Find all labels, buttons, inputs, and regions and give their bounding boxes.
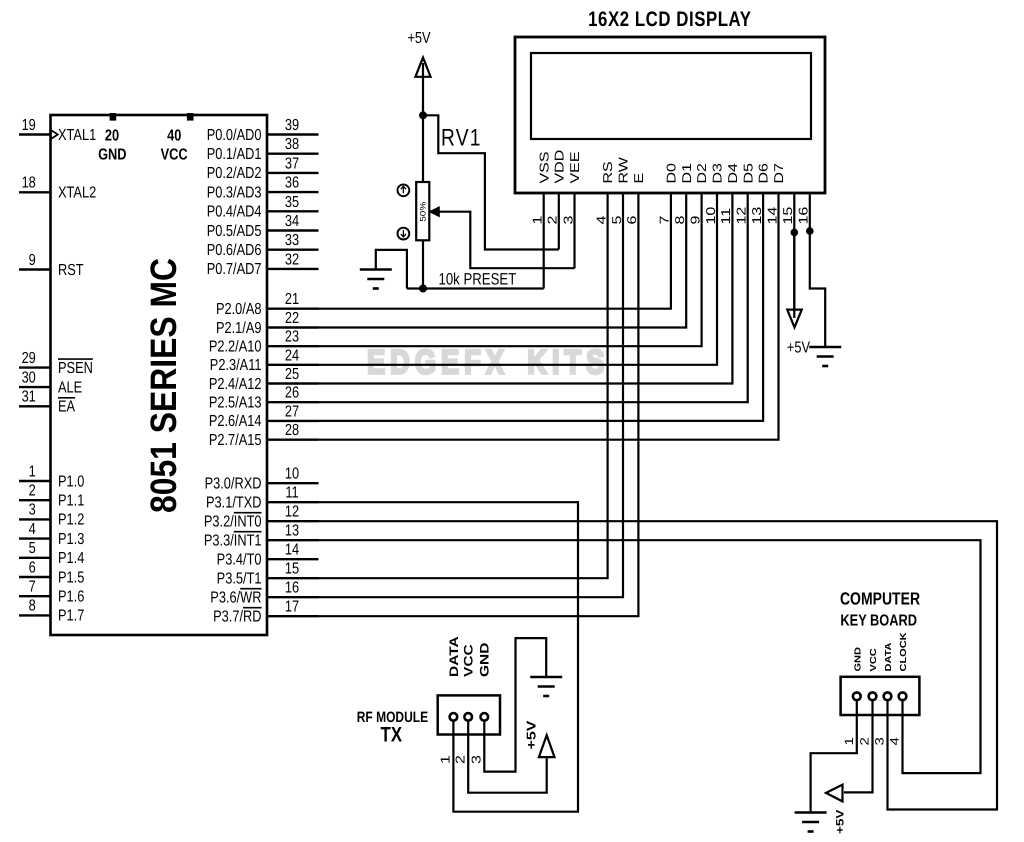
pin 29 PSEN stub (19, 366, 51, 368)
wire P2.2/A10 to LCD (319, 193, 702, 346)
pin 6 P1.5 stub (19, 576, 51, 578)
pin 28 number (285, 422, 299, 439)
pin 18 XTAL2 stub (19, 191, 51, 193)
pin 2 number (29, 483, 36, 500)
svg-text:21: 21 (285, 291, 299, 308)
keyboard GND wire to ground (811, 701, 857, 813)
pin 16 label P3.6/WR (210, 590, 261, 607)
svg-text:P2.3/A11: P2.3/A11 (210, 357, 262, 374)
pin 3 label P1.2 (58, 512, 84, 529)
svg-text:3: 3 (873, 737, 887, 745)
LCD pin 16 number (797, 207, 811, 225)
pin 28 label P2.7/A15 (209, 432, 262, 449)
LCD module outline (515, 37, 825, 193)
svg-text:7: 7 (29, 579, 36, 596)
svg-text:VDD: VDD (553, 150, 567, 184)
pin 19 number (22, 117, 36, 134)
overline PSEN (58, 358, 93, 360)
LCD pin label D6 (757, 163, 771, 184)
svg-text:39: 39 (285, 117, 299, 134)
LCD pin label VSS (538, 151, 552, 183)
LCD screen (531, 53, 811, 139)
svg-text:P1.4: P1.4 (58, 550, 84, 567)
pin 12 number (285, 504, 299, 521)
watermark EDGEFX KITS (367, 344, 609, 382)
pin 9 RST stub (19, 268, 51, 270)
keyboard pin label DATA (884, 643, 894, 672)
pin 21 label P2.0/A8 (216, 301, 262, 318)
pin 22 number (285, 310, 299, 327)
svg-text:P2.1/A9: P2.1/A9 (216, 320, 262, 337)
label +5V at RF module (525, 720, 539, 749)
svg-text:38: 38 (285, 136, 299, 153)
pin 39 P0.0/AD0 stub (267, 133, 319, 135)
overline RD (243, 607, 261, 609)
svg-text:+5V: +5V (407, 30, 430, 47)
pin 34 label P0.5/AD5 (207, 223, 262, 240)
svg-text:XTAL1: XTAL1 (58, 127, 96, 144)
svg-text:7: 7 (658, 216, 672, 225)
pin 37 number (285, 155, 299, 172)
pin 9 label RST (58, 262, 84, 279)
svg-text:25: 25 (285, 366, 299, 383)
label RV1 (441, 125, 482, 152)
RF pin label VCC (462, 644, 476, 677)
RF pin 2 number (454, 755, 468, 764)
svg-text:16: 16 (285, 580, 299, 597)
pin 2 P1.1 stub (19, 499, 51, 501)
LCD pin label D7 (773, 163, 787, 184)
pin 4 number (29, 521, 36, 538)
label +5V at pin15 (787, 339, 810, 356)
pin 5 number (29, 540, 36, 557)
svg-text:14: 14 (766, 207, 780, 225)
svg-text:+5V: +5V (787, 339, 810, 356)
RF pin label GND (478, 643, 492, 677)
pin 37 label P0.2/AD2 (207, 165, 262, 182)
pin 4 P1.3 stub (19, 537, 51, 539)
pin 39 number (285, 117, 299, 134)
svg-text:P1.7: P1.7 (58, 608, 84, 625)
pin 27 label P2.6/A14 (209, 413, 262, 430)
+5V supply arrow (up) (415, 58, 430, 77)
pin 6 number (29, 559, 36, 576)
pin 26 number (285, 385, 299, 402)
LCD pin 8 number (674, 216, 688, 225)
preset RV1 body (416, 182, 429, 240)
svg-text:TX: TX (381, 724, 402, 747)
keyboard pin 2 number (858, 737, 872, 745)
svg-text:31: 31 (22, 389, 36, 406)
pin 20 GND label (105, 128, 119, 145)
svg-text:D2: D2 (696, 163, 710, 184)
pin 35 label P0.4/AD4 (207, 204, 262, 221)
junction dot pin 16 (806, 227, 814, 235)
svg-text:10k PRESET: 10k PRESET (439, 271, 517, 289)
svg-text:+5V: +5V (525, 720, 539, 749)
pin 35 P0.4/AD4 stub (267, 210, 319, 212)
svg-text:11: 11 (285, 485, 298, 502)
keyboard pin 3 DATA circle (884, 692, 892, 700)
LED backlight +5V arrow (down) (787, 310, 802, 328)
pin 32 P0.7/AD7 stub (267, 268, 319, 270)
pin 17 P3.7/RD stub (267, 615, 319, 617)
svg-text:5: 5 (29, 540, 36, 557)
pin 35 number (285, 194, 299, 211)
svg-text:10: 10 (285, 466, 299, 483)
svg-text:GND: GND (98, 147, 126, 164)
pin 8 number (29, 598, 36, 615)
svg-text:XTAL2: XTAL2 (58, 185, 96, 202)
svg-text:P1.0: P1.0 (58, 473, 84, 490)
power +5V label at RV1 (407, 30, 430, 47)
LCD pin 10 number (704, 207, 718, 225)
svg-text:17: 17 (285, 599, 299, 616)
junction dot at +5V node (419, 111, 427, 119)
svg-text:P3.1/TXD: P3.1/TXD (206, 495, 261, 512)
svg-text:P0.5/AD5: P0.5/AD5 (207, 223, 262, 240)
pin 29 number (22, 350, 36, 367)
pin 33 P0.6/AD6 stub (267, 248, 319, 250)
svg-text:29: 29 (22, 350, 36, 367)
pin 14 number (285, 542, 299, 559)
pin 3 P1.2 stub (19, 518, 51, 520)
pin 39 label P0.0/AD0 (207, 127, 262, 144)
svg-text:P0.7/AD7: P0.7/AD7 (207, 261, 262, 278)
svg-text:P0.1/AD1: P0.1/AD1 (207, 146, 262, 163)
svg-text:16X2 LCD DISPLAY: 16X2 LCD DISPLAY (588, 8, 751, 31)
pin 15 number (285, 561, 299, 578)
pin 16 P3.6/WR stub (267, 596, 319, 598)
svg-text:4: 4 (888, 737, 902, 745)
LCD pin label D0 (665, 163, 679, 184)
svg-text:P3.5/T1: P3.5/T1 (217, 571, 262, 588)
keyboard pin 4 number (888, 737, 902, 745)
svg-text:20: 20 (105, 128, 119, 145)
svg-text:27: 27 (285, 403, 299, 420)
RV1 wiper arrow to VEE (430, 207, 439, 216)
pin 7 P1.6 stub (19, 595, 51, 597)
pin 7 number (29, 579, 36, 596)
pin 8 label P1.7 (58, 608, 84, 625)
pin 14 label P3.4/T0 (217, 552, 262, 569)
svg-text:P2.4/A12: P2.4/A12 (209, 376, 262, 393)
svg-text:P2.7/A15: P2.7/A15 (209, 432, 262, 449)
pin 12 P3.2/INT0 stub (267, 520, 319, 522)
svg-text:VCC: VCC (161, 147, 188, 164)
svg-text:5: 5 (610, 216, 624, 225)
wire P2.5/A13 to LCD (319, 193, 748, 402)
wire P2.0/A8 to LCD (319, 193, 671, 309)
svg-text:26: 26 (285, 385, 299, 402)
svg-text:VSS: VSS (538, 151, 552, 183)
svg-text:P0.0/AD0: P0.0/AD0 (207, 127, 262, 144)
pin 3 number (29, 502, 36, 519)
svg-text:50%: 50% (419, 202, 428, 222)
LCD pin 7 number (658, 216, 672, 225)
pin 10 number (285, 466, 299, 483)
svg-text:36: 36 (285, 175, 299, 192)
pin 24 number (285, 347, 299, 364)
pin 34 P0.5/AD5 stub (267, 229, 319, 231)
XTAL1 input arrow (51, 130, 58, 139)
wire P2.6/A14 to LCD (319, 193, 764, 421)
svg-text:14: 14 (285, 542, 299, 559)
pin 1 number (29, 463, 36, 480)
pin 30 number (22, 369, 36, 386)
pin 33 number (285, 232, 299, 249)
RF VCC wire to +5V (468, 721, 547, 793)
svg-text:P2.2/A10: P2.2/A10 (209, 339, 262, 356)
pin 19 XTAL1 stub (19, 133, 51, 135)
RF pin 3 number (470, 755, 484, 764)
svg-text:P3.6/WR: P3.6/WR (210, 590, 261, 607)
ground wire to VSS rail (376, 250, 544, 289)
pin 2 label P1.1 (58, 493, 84, 510)
wire P3.6/WR to LCD (319, 193, 624, 597)
pin 40 VCC top dot (187, 113, 194, 121)
keyboard pin label CLOCK (899, 632, 909, 671)
svg-text:1: 1 (842, 737, 856, 745)
LCD pin 1 VSS wire to ground rail (543, 193, 545, 289)
RF module TX connector body (438, 695, 500, 734)
pin 32 label P0.7/AD7 (207, 261, 262, 278)
svg-text:35: 35 (285, 194, 299, 211)
LCD pin label VDD (553, 150, 567, 184)
svg-text:1: 1 (439, 755, 453, 764)
svg-text:10: 10 (704, 207, 718, 225)
RF pin 3 GND circle (481, 713, 489, 721)
svg-text:VEE: VEE (569, 151, 583, 183)
pin 11 P3.1/TXD stub (267, 501, 319, 503)
svg-text:30: 30 (22, 369, 36, 386)
svg-text:DATA: DATA (884, 643, 894, 672)
LCD pin 12 number (735, 207, 749, 225)
+5V arrow at keyboard (left) (826, 785, 843, 802)
pin 25 number (285, 366, 299, 383)
svg-text:COMPUTER: COMPUTER (840, 589, 920, 609)
keyboard pin 1 number (842, 737, 856, 745)
pin 38 number (285, 136, 299, 153)
svg-text:KEY BOARD: KEY BOARD (840, 613, 917, 630)
keyboard pin 3 number (873, 737, 887, 745)
ground at LCD pin 16 (809, 346, 841, 349)
wire P2.1/A9 to LCD (319, 193, 687, 328)
svg-text:P0.6/AD6: P0.6/AD6 (207, 242, 262, 259)
pin 11 number (285, 485, 298, 502)
pin 17 label P3.7/RD (213, 609, 261, 626)
svg-text:P2.0/A8: P2.0/A8 (216, 301, 262, 318)
pin 13 P3.3/INT1 stub (267, 539, 319, 541)
LCD pin label D5 (742, 163, 756, 184)
svg-text:P1.3: P1.3 (58, 531, 84, 548)
svg-text:6: 6 (626, 216, 640, 225)
LCD pin label D3 (711, 163, 725, 184)
pin 14 P3.4/T0 stub (267, 558, 319, 560)
svg-text:4: 4 (29, 521, 36, 538)
pin 15 label P3.5/T1 (217, 571, 262, 588)
RV1 bottom wire (422, 240, 424, 288)
pin 27 number (285, 403, 299, 420)
svg-text:8051 SERIES MC: 8051 SERIES MC (142, 258, 184, 513)
RF pin label DATA (447, 636, 461, 677)
pin 23 label P2.2/A10 (209, 339, 262, 356)
RV1 turn-up indicator (398, 184, 410, 196)
svg-text:P3.0/RXD: P3.0/RXD (205, 476, 262, 493)
pin 19 label XTAL1 (58, 127, 96, 144)
LCD pin label D1 (680, 163, 694, 184)
svg-text:VCC: VCC (462, 644, 476, 677)
wire P3.7/RD to LCD (319, 193, 639, 616)
microcontroller U1 8051 SERIES MC body (51, 115, 268, 635)
pin 20 GND top dot (110, 113, 117, 121)
pin 1 P1.0 stub (19, 480, 51, 482)
LCD pin 2 number (546, 216, 560, 225)
pin 36 number (285, 175, 299, 192)
wire P2.7/A15 to LCD (319, 193, 779, 440)
pin 31 label EA (58, 399, 75, 416)
RF pin 2 VCC circle (464, 713, 472, 721)
pin 18 label XTAL2 (58, 185, 96, 202)
pin 11 label P3.1/TXD (206, 495, 261, 512)
RF pin 1 number (439, 755, 453, 764)
wire P3.1/TXD to RF module DATA (319, 502, 579, 812)
keyboard pin 4 CLOCK circle (899, 692, 907, 700)
label +5V at keyboard (834, 810, 846, 834)
pin 16 number (285, 580, 299, 597)
pin 27 P2.6/A14 stub (267, 420, 319, 422)
pin 26 P2.5/A13 stub (267, 401, 319, 403)
svg-text:RST: RST (58, 262, 84, 279)
pin 12 label P3.2/INT0 (204, 514, 262, 531)
LCD pin label E (633, 173, 647, 184)
pin 24 P2.3/A11 stub (267, 364, 319, 366)
LCD pin 14 number (766, 207, 780, 225)
pin 13 number (285, 523, 299, 540)
overline INT1 (234, 531, 262, 533)
svg-text:GND: GND (853, 647, 863, 672)
svg-text:+5V: +5V (834, 810, 846, 834)
LCD pin 5 number (610, 216, 624, 225)
svg-text:D4: D4 (727, 163, 741, 184)
pin 21 P2.0/A8 stub (267, 308, 319, 310)
svg-text:D6: D6 (757, 163, 771, 184)
junction dot at RV1 bottom (419, 285, 427, 293)
RF module label (357, 709, 428, 726)
pin 29 label PSEN (58, 360, 93, 377)
pin 38 label P0.1/AD1 (207, 146, 262, 163)
svg-text:VCC: VCC (869, 648, 879, 671)
svg-text:D5: D5 (742, 163, 756, 184)
pin 31 number (22, 389, 36, 406)
RF GND wire to ground (484, 638, 546, 772)
svg-text:E: E (633, 173, 647, 184)
svg-text:2: 2 (454, 755, 468, 764)
keyboard pin 1 GND circle (853, 692, 861, 700)
pin 21 number (285, 291, 299, 308)
pin 38 P0.1/AD1 stub (267, 152, 319, 154)
+5V arrow at RF module (539, 735, 555, 757)
keyboard pin label VCC (869, 648, 879, 671)
svg-text:33: 33 (285, 232, 299, 249)
svg-text:3: 3 (470, 755, 484, 764)
pin 36 label P0.3/AD3 (207, 184, 262, 201)
keyboard pin 2 VCC circle (869, 692, 877, 700)
svg-text:9: 9 (689, 216, 703, 225)
svg-text:2: 2 (29, 483, 36, 500)
svg-text:22: 22 (285, 310, 299, 327)
pin 10 label P3.0/RXD (205, 476, 262, 493)
ground at RF module (530, 676, 562, 679)
pin 32 number (285, 251, 299, 268)
svg-text:P1.1: P1.1 (58, 493, 84, 510)
svg-text:40: 40 (167, 128, 181, 145)
svg-text:ALE: ALE (58, 379, 82, 396)
svg-text:19: 19 (22, 117, 36, 134)
pin 5 label P1.4 (58, 550, 84, 567)
svg-text:37: 37 (285, 155, 299, 172)
svg-text:32: 32 (285, 251, 299, 268)
svg-text:EA: EA (58, 399, 75, 416)
svg-text:2: 2 (858, 737, 872, 745)
LCD pin label RS (602, 161, 616, 183)
svg-text:6: 6 (29, 559, 36, 576)
LCD pin label D4 (727, 163, 741, 184)
svg-text:GND: GND (478, 643, 492, 677)
RV1 turn-down indicator (398, 228, 410, 240)
overline INT0 (234, 512, 262, 514)
svg-text:P3.7/RD: P3.7/RD (213, 609, 261, 626)
svg-text:D1: D1 (680, 163, 694, 184)
svg-text:12: 12 (735, 207, 749, 225)
keyboard connector body (841, 677, 920, 715)
svg-text:8: 8 (29, 598, 36, 615)
LCD pin 1 number (531, 216, 545, 225)
pin 23 P2.2/A10 stub (267, 345, 319, 347)
chip label 8051 SERIES MC (142, 258, 184, 513)
pin 4 label P1.3 (58, 531, 84, 548)
pin 22 P2.1/A9 stub (267, 326, 319, 328)
pin 8 P1.7 stub (19, 614, 51, 616)
pin 26 label P2.5/A13 (209, 395, 262, 412)
LCD pin label VEE (569, 151, 583, 183)
svg-text:24: 24 (285, 347, 299, 364)
svg-text:D0: D0 (665, 163, 679, 184)
svg-text:RW: RW (617, 156, 631, 183)
pin 22 label P2.1/A9 (216, 320, 262, 337)
svg-text:P0.2/AD2: P0.2/AD2 (207, 165, 262, 182)
pin 9 number (29, 252, 36, 269)
junction dot pin 15 (791, 229, 799, 237)
svg-text:EDGEFX KITS: EDGEFX KITS (367, 344, 609, 382)
pin 31 EA stub (19, 405, 51, 407)
pin 24 label P2.3/A11 (210, 357, 262, 374)
svg-text:RV1: RV1 (441, 125, 482, 152)
overline EA (58, 397, 75, 399)
svg-text:P2.5/A13: P2.5/A13 (209, 395, 262, 412)
pin 37 P0.2/AD2 stub (267, 172, 319, 174)
svg-text:CLOCK: CLOCK (899, 632, 909, 671)
svg-text:9: 9 (29, 252, 36, 269)
LCD pin 16 wire to ground (810, 193, 825, 347)
svg-text:RS: RS (602, 161, 616, 183)
overline WR (240, 588, 261, 590)
svg-text:4: 4 (595, 216, 609, 225)
pin 23 number (285, 329, 299, 346)
wire P3.5/T1 to LCD (319, 193, 608, 578)
pin 28 P2.7/A15 stub (267, 439, 319, 441)
svg-text:P0.4/AD4: P0.4/AD4 (207, 204, 262, 221)
